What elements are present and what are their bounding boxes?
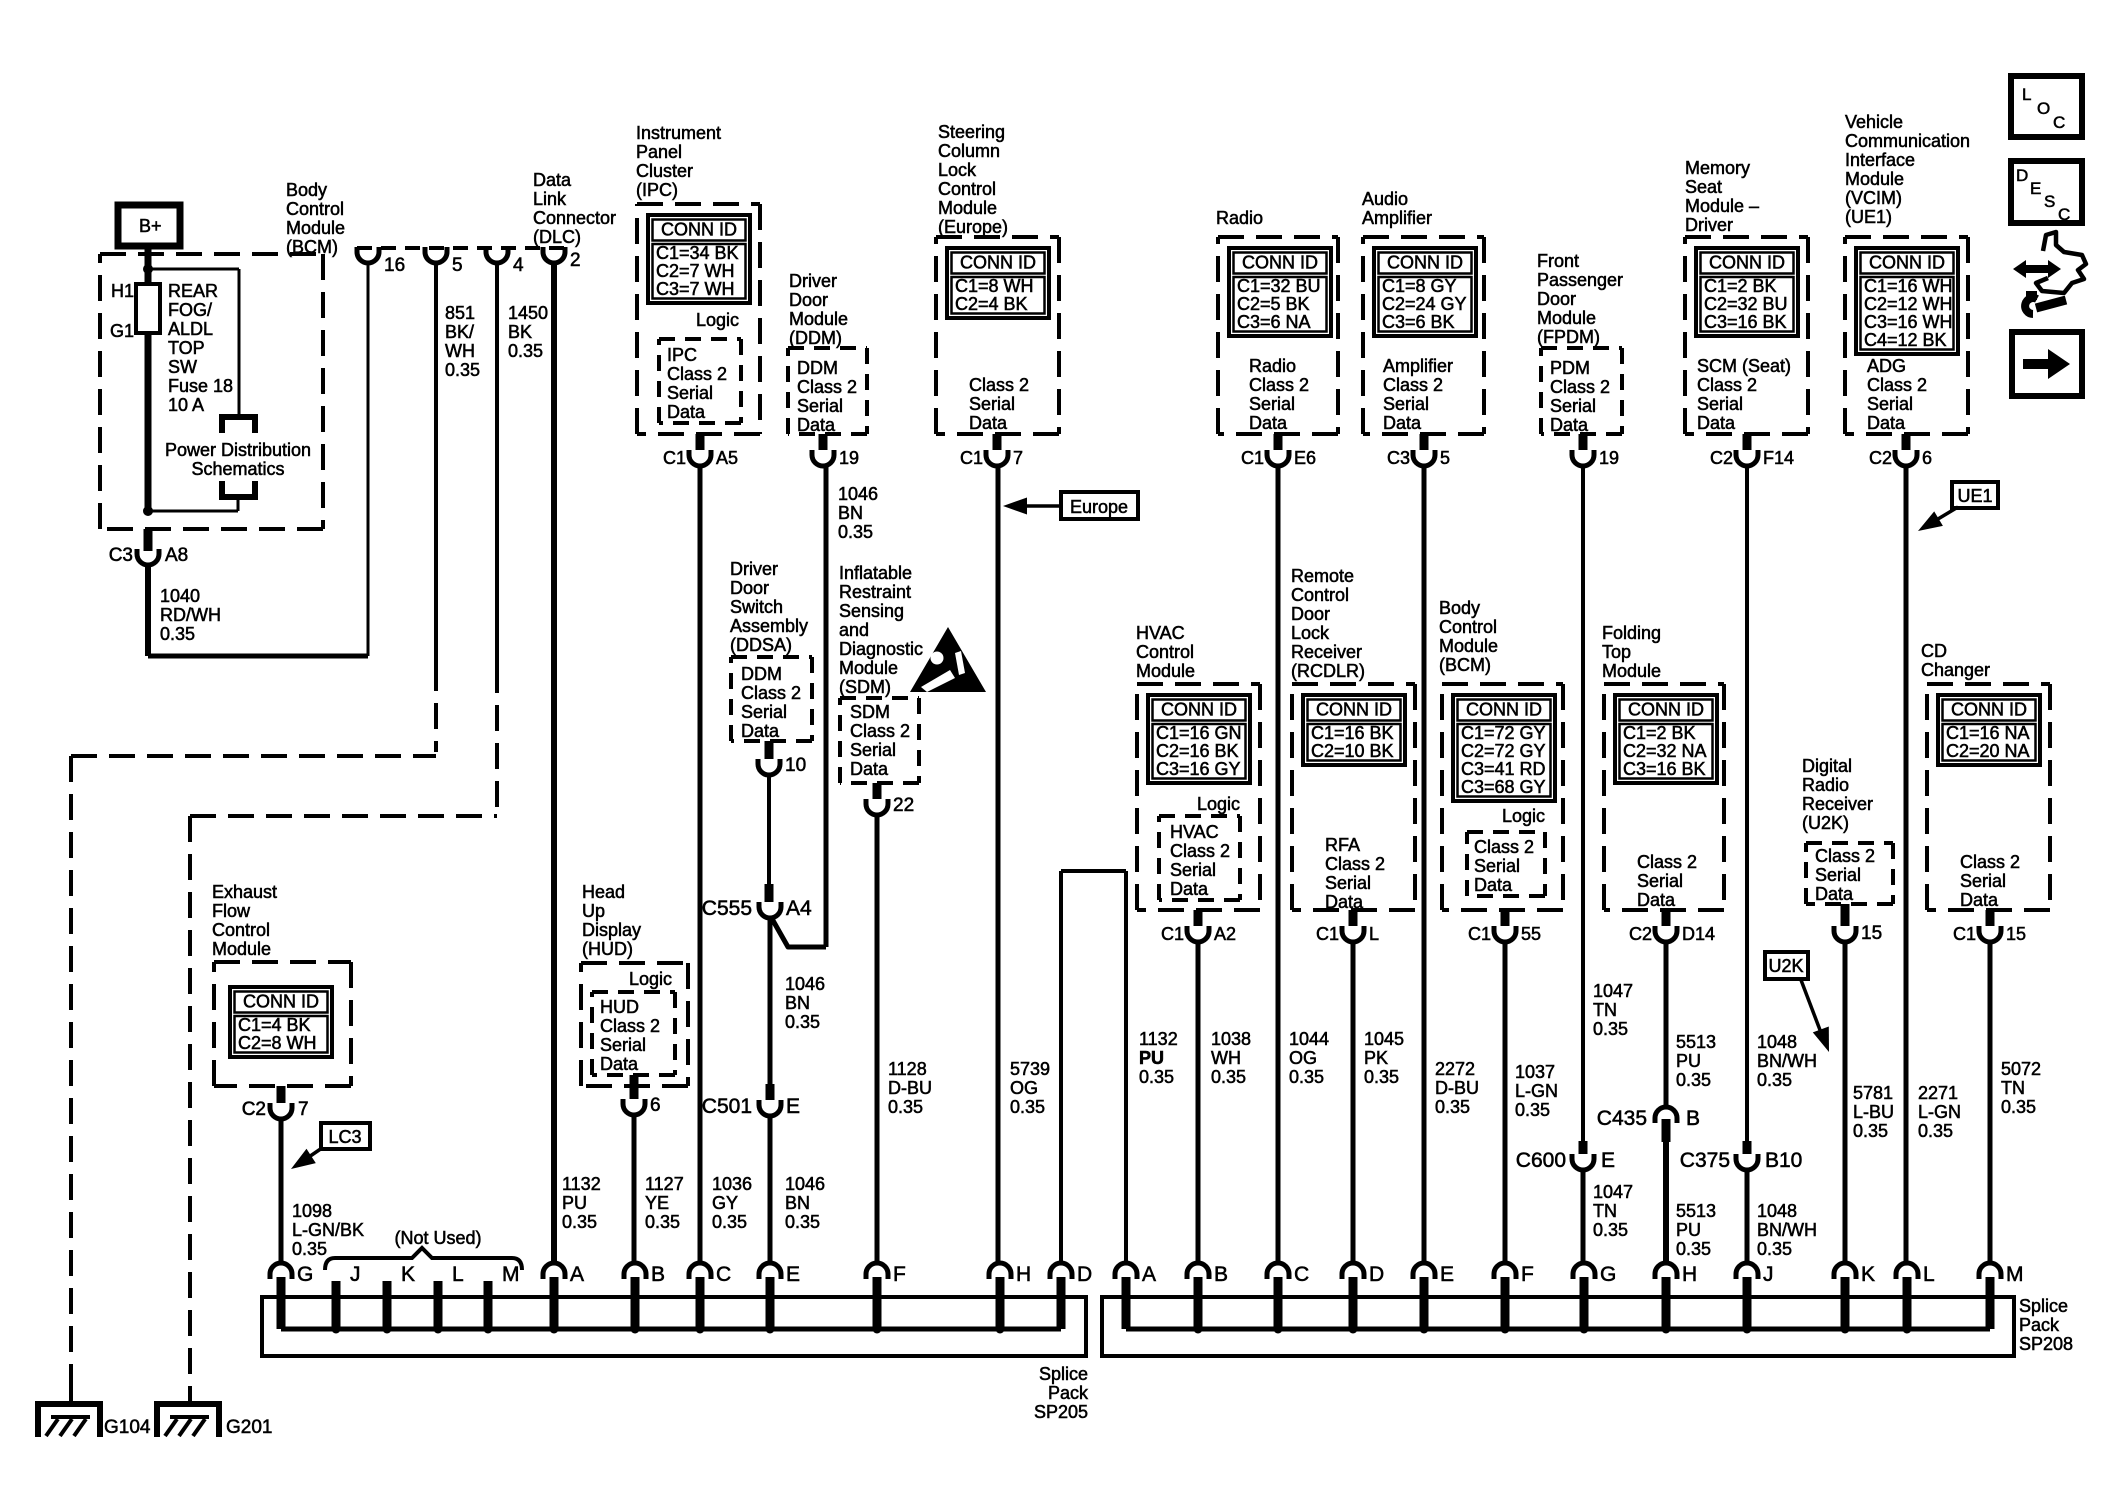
svg-text:C2: C2 [1710,448,1733,468]
svg-text:Europe: Europe [1070,497,1128,517]
svg-text:851: 851 [445,303,475,323]
svg-text:0.35: 0.35 [1593,1019,1628,1039]
svg-text:Serial: Serial [1325,873,1371,893]
svg-text:0.35: 0.35 [785,1212,820,1232]
svg-text:C1: C1 [1316,924,1339,944]
svg-text:CONN ID: CONN ID [1628,700,1704,720]
svg-text:PDM: PDM [1550,358,1590,378]
svg-text:Top: Top [1602,642,1631,662]
svg-text:Communication: Communication [1845,131,1970,151]
svg-text:1045: 1045 [1364,1029,1404,1049]
svg-text:B+: B+ [139,216,162,236]
svg-text:1040: 1040 [160,586,200,606]
svg-text:1047: 1047 [1593,981,1633,1001]
svg-text:OG: OG [1289,1048,1317,1068]
svg-text:L: L [452,1263,464,1286]
svg-text:Class 2: Class 2 [969,375,1029,395]
svg-text:Exhaust: Exhaust [212,882,277,902]
svg-text:C3: C3 [109,545,133,566]
svg-text:19: 19 [839,448,859,468]
svg-text:BN: BN [785,1193,810,1213]
svg-text:Module: Module [1136,661,1195,681]
svg-text:PU: PU [1676,1051,1701,1071]
svg-text:B: B [1214,1263,1228,1286]
svg-text:K: K [401,1263,415,1286]
svg-text:C3=68 GY: C3=68 GY [1461,777,1546,797]
svg-text:Folding: Folding [1602,623,1661,643]
svg-text:HVAC: HVAC [1136,623,1185,643]
svg-text:Logic: Logic [696,310,739,330]
svg-text:Remote: Remote [1291,566,1354,586]
svg-text:L-GN: L-GN [1515,1081,1558,1101]
svg-text:Amplifier: Amplifier [1362,208,1432,228]
svg-text:1128: 1128 [888,1059,927,1079]
svg-text:Amplifier: Amplifier [1383,356,1453,376]
svg-text:Restraint: Restraint [839,582,911,602]
svg-text:CONN ID: CONN ID [1316,700,1392,720]
svg-text:C2: C2 [1869,448,1892,468]
svg-text:F: F [893,1263,906,1286]
svg-text:A: A [570,1263,584,1286]
svg-text:U2K: U2K [1768,956,1803,976]
svg-text:C555: C555 [702,897,752,920]
svg-text:Data: Data [667,402,706,422]
svg-text:0.35: 0.35 [645,1212,680,1232]
svg-text:B: B [651,1263,665,1286]
svg-text:C1: C1 [1161,924,1184,944]
svg-text:0.35: 0.35 [1435,1097,1470,1117]
svg-text:C1: C1 [960,448,983,468]
svg-text:C3: C3 [1387,448,1410,468]
svg-text:CONN ID: CONN ID [1466,700,1542,720]
svg-text:Link: Link [533,189,567,209]
svg-text:D-BU: D-BU [1435,1078,1479,1098]
svg-text:Fuse 18: Fuse 18 [168,376,233,396]
svg-text:Schematics: Schematics [191,459,284,479]
svg-text:Serial: Serial [850,740,896,760]
svg-text:(FPDM): (FPDM) [1537,327,1600,347]
svg-text:Pack: Pack [2019,1315,2060,1335]
svg-text:L-BU: L-BU [1853,1102,1894,1122]
svg-text:Radio: Radio [1249,356,1296,376]
svg-text:Panel: Panel [636,142,682,162]
svg-text:Module: Module [1537,308,1596,328]
svg-text:C2=12 WH: C2=12 WH [1864,294,1953,314]
svg-text:0.35: 0.35 [712,1212,747,1232]
svg-text:Logic: Logic [1197,794,1240,814]
svg-text:0.35: 0.35 [1139,1067,1174,1087]
svg-text:FOG/: FOG/ [168,300,212,320]
svg-text:5739: 5739 [1010,1059,1050,1079]
svg-text:(UE1): (UE1) [1845,207,1892,227]
svg-text:B10: B10 [1765,1149,1802,1172]
svg-text:A5: A5 [716,448,738,468]
svg-text:0.35: 0.35 [1515,1100,1550,1120]
svg-text:Audio: Audio [1362,189,1408,209]
svg-text:Logic: Logic [629,969,672,989]
svg-text:Serial: Serial [741,702,787,722]
svg-text:55: 55 [1521,924,1541,944]
svg-text:CONN ID: CONN ID [243,992,319,1012]
svg-text:1450: 1450 [508,303,548,323]
svg-text:Data: Data [1960,890,1999,910]
svg-text:Data: Data [1815,884,1854,904]
svg-text:RD/WH: RD/WH [160,605,221,625]
svg-text:0.35: 0.35 [1676,1070,1711,1090]
svg-text:Seat: Seat [1685,177,1722,197]
svg-text:Module: Module [1602,661,1661,681]
svg-text:C3=6 NA: C3=6 NA [1237,312,1311,332]
svg-text:BN: BN [838,503,863,523]
svg-text:Serial: Serial [1249,394,1295,414]
svg-text:REAR: REAR [168,281,218,301]
svg-text:1132: 1132 [562,1174,601,1194]
svg-text:C4=12 BK: C4=12 BK [1864,330,1947,350]
svg-text:M: M [2006,1263,2024,1286]
svg-text:C1=16 BK: C1=16 BK [1311,723,1394,743]
svg-text:7: 7 [1013,448,1023,468]
svg-text:C1=2 BK: C1=2 BK [1623,723,1696,743]
svg-text:Instrument: Instrument [636,123,721,143]
svg-text:B: B [1686,1107,1700,1130]
svg-text:Control: Control [938,179,996,199]
svg-text:Data: Data [741,721,780,741]
svg-text:CONN ID: CONN ID [1161,700,1237,720]
svg-text:(BCM): (BCM) [286,237,338,257]
svg-text:M: M [502,1263,520,1286]
svg-text:Steering: Steering [938,122,1005,142]
svg-text:Lock: Lock [938,160,977,180]
svg-text:K: K [1861,1263,1875,1286]
svg-text:Driver: Driver [1685,215,1733,235]
svg-text:Serial: Serial [1697,394,1743,414]
svg-text:0.35: 0.35 [2001,1097,2036,1117]
svg-text:4: 4 [513,255,524,276]
svg-text:C1=16 WH: C1=16 WH [1864,276,1953,296]
svg-text:Data: Data [1383,413,1422,433]
svg-text:Radio: Radio [1802,775,1849,795]
svg-text:C3=16 WH: C3=16 WH [1864,312,1953,332]
svg-text:Class 2: Class 2 [1170,841,1230,861]
svg-text:WH: WH [445,341,475,361]
svg-text:PK: PK [1364,1048,1388,1068]
svg-text:Control: Control [212,920,270,940]
svg-text:C2=32 BU: C2=32 BU [1704,294,1788,314]
svg-text:Control: Control [1291,585,1349,605]
svg-text:A: A [1142,1263,1156,1286]
svg-text:Driver: Driver [789,271,837,291]
svg-text:0.35: 0.35 [1289,1067,1324,1087]
svg-text:Cluster: Cluster [636,161,693,181]
svg-text:10: 10 [785,755,806,776]
svg-text:Data: Data [1550,415,1589,435]
svg-text:1127: 1127 [645,1174,684,1194]
svg-text:HUD: HUD [600,997,639,1017]
svg-text:SP205: SP205 [1034,1402,1088,1422]
svg-text:C1=16 NA: C1=16 NA [1946,723,2030,743]
svg-text:BK: BK [508,322,532,342]
svg-text:Assembly: Assembly [730,616,808,636]
svg-text:C2=72 GY: C2=72 GY [1461,741,1546,761]
svg-text:F: F [1521,1263,1534,1286]
svg-text:Class 2: Class 2 [1815,846,1875,866]
svg-text:Serial: Serial [797,396,843,416]
svg-text:Data: Data [533,170,572,190]
svg-text:C2=5 BK: C2=5 BK [1237,294,1310,314]
svg-text:D: D [1077,1263,1092,1286]
svg-text:C3=16 GY: C3=16 GY [1156,759,1241,779]
svg-text:Serial: Serial [600,1035,646,1055]
svg-text:D-BU: D-BU [888,1078,932,1098]
svg-text:Receiver: Receiver [1291,642,1362,662]
svg-text:E: E [1601,1149,1615,1172]
svg-text:J: J [1763,1263,1774,1286]
svg-text:L: L [1369,924,1379,944]
svg-text:Splice: Splice [2019,1296,2068,1316]
svg-text:Class 2: Class 2 [1637,852,1697,872]
svg-text:0.35: 0.35 [1593,1220,1628,1240]
svg-text:0.35: 0.35 [292,1239,327,1259]
svg-text:Serial: Serial [1383,394,1429,414]
svg-text:SW: SW [168,357,197,377]
svg-text:C2=10 BK: C2=10 BK [1311,741,1394,761]
svg-text:Control: Control [1136,642,1194,662]
svg-text:Serial: Serial [1960,871,2006,891]
svg-text:C2: C2 [1629,924,1652,944]
svg-text:Inflatable: Inflatable [839,563,912,583]
svg-text:5: 5 [1440,448,1450,468]
svg-text:S: S [2044,192,2055,211]
svg-text:0.35: 0.35 [445,360,480,380]
svg-text:Data: Data [1474,875,1513,895]
svg-text:C2=24 GY: C2=24 GY [1382,294,1467,314]
svg-text:C1: C1 [1468,924,1491,944]
svg-text:Pack: Pack [1048,1383,1089,1403]
svg-text:1046: 1046 [785,974,825,994]
svg-text:(DLC): (DLC) [533,227,581,247]
svg-text:CONN ID: CONN ID [1951,700,2027,720]
svg-text:1046: 1046 [785,1174,825,1194]
svg-text:C: C [716,1263,731,1286]
svg-text:BN/WH: BN/WH [1757,1220,1817,1240]
svg-text:2: 2 [570,250,581,271]
svg-text:Data: Data [1867,413,1906,433]
svg-text:Body: Body [286,180,327,200]
svg-text:Door: Door [789,290,828,310]
svg-text:Data: Data [850,759,889,779]
svg-text:C3=16 BK: C3=16 BK [1704,312,1787,332]
svg-text:CONN ID: CONN ID [661,220,737,240]
svg-text:(BCM): (BCM) [1439,655,1491,675]
svg-text:CONN ID: CONN ID [960,253,1036,273]
svg-text:C375: C375 [1680,1149,1730,1172]
svg-text:Control: Control [1439,617,1497,637]
svg-text:Class 2: Class 2 [667,364,727,384]
svg-text:(SDM): (SDM) [839,677,891,697]
svg-text:CONN ID: CONN ID [1387,253,1463,273]
svg-text:Splice: Splice [1039,1364,1088,1384]
svg-text:Up: Up [582,901,605,921]
svg-text:C1=16 GN: C1=16 GN [1156,723,1242,743]
svg-text:1037: 1037 [1515,1062,1555,1082]
svg-text:(U2K): (U2K) [1802,813,1849,833]
svg-text:C: C [2053,113,2065,132]
svg-text:5781: 5781 [1853,1083,1893,1103]
svg-text:ALDL: ALDL [168,319,213,339]
svg-text:C501: C501 [702,1095,752,1118]
svg-text:2272: 2272 [1435,1059,1475,1079]
svg-text:Power Distribution: Power Distribution [165,440,311,460]
svg-text:WH: WH [1211,1048,1241,1068]
svg-text:PU: PU [562,1193,587,1213]
svg-text:Module: Module [1439,636,1498,656]
svg-text:Class 2: Class 2 [1697,375,1757,395]
svg-text:CONN ID: CONN ID [1242,253,1318,273]
svg-text:0.35: 0.35 [785,1012,820,1032]
svg-text:0.35: 0.35 [888,1097,923,1117]
svg-text:C1=72 GY: C1=72 GY [1461,723,1546,743]
svg-text:1047: 1047 [1593,1182,1633,1202]
svg-text:1048: 1048 [1757,1032,1797,1052]
svg-text:Class 2: Class 2 [1867,375,1927,395]
svg-text:F14: F14 [1763,448,1794,468]
svg-text:D: D [1369,1263,1384,1286]
svg-text:C2: C2 [242,1099,266,1120]
svg-text:O: O [2037,99,2050,118]
svg-text:Module: Module [1845,169,1904,189]
svg-text:0.35: 0.35 [562,1212,597,1232]
svg-text:TOP: TOP [168,338,205,358]
svg-text:G: G [1600,1263,1616,1286]
svg-text:Door: Door [730,578,769,598]
svg-text:HVAC: HVAC [1170,822,1219,842]
svg-text:1038: 1038 [1211,1029,1251,1049]
svg-text:5513: 5513 [1676,1201,1716,1221]
svg-text:J: J [350,1263,361,1286]
svg-text:Class 2: Class 2 [797,377,857,397]
svg-text:LC3: LC3 [328,1127,361,1147]
svg-text:Class 2: Class 2 [1249,375,1309,395]
svg-text:Display: Display [582,920,641,940]
svg-text:Head: Head [582,882,625,902]
svg-text:Connector: Connector [533,208,616,228]
svg-text:L-GN: L-GN [1918,1102,1961,1122]
svg-text:C1=34 BK: C1=34 BK [656,243,739,263]
svg-text:Module: Module [839,658,898,678]
svg-text:6: 6 [650,1095,661,1116]
svg-text:C435: C435 [1597,1107,1647,1130]
svg-text:Class 2: Class 2 [1474,837,1534,857]
svg-text:(IPC): (IPC) [636,180,678,200]
svg-text:Class 2: Class 2 [850,721,910,741]
svg-text:Flow: Flow [212,901,251,921]
svg-text:Lock: Lock [1291,623,1330,643]
svg-text:Interface: Interface [1845,150,1915,170]
svg-text:7: 7 [298,1099,309,1120]
svg-text:E6: E6 [1294,448,1316,468]
svg-text:Digital: Digital [1802,756,1852,776]
svg-text:Class 2: Class 2 [1550,377,1610,397]
svg-text:E: E [2030,179,2041,198]
svg-text:0.35: 0.35 [508,341,543,361]
svg-text:OG: OG [1010,1078,1038,1098]
svg-text:CONN ID: CONN ID [1709,253,1785,273]
svg-text:Driver: Driver [730,559,778,579]
svg-text:G1: G1 [110,321,134,341]
svg-text:RFA: RFA [1325,835,1360,855]
svg-text:5072: 5072 [2001,1059,2041,1079]
svg-text:(Europe): (Europe) [938,217,1008,237]
svg-text:Passenger: Passenger [1537,270,1623,290]
svg-text:CD: CD [1921,641,1947,661]
svg-text:G: G [297,1263,313,1286]
svg-text:SDM: SDM [850,702,890,722]
svg-text:Logic: Logic [1502,806,1545,826]
svg-text:L: L [1923,1263,1935,1286]
svg-text:C600: C600 [1516,1149,1566,1172]
svg-text:Serial: Serial [1170,860,1216,880]
svg-text:10 A: 10 A [168,395,204,415]
svg-text:TN: TN [2001,1078,2025,1098]
svg-text:Class 2: Class 2 [1383,375,1443,395]
svg-text:Data: Data [1170,879,1209,899]
svg-text:C1=2 BK: C1=2 BK [1704,276,1777,296]
svg-text:SCM (Seat): SCM (Seat) [1697,356,1791,376]
svg-text:C: C [2058,205,2070,224]
svg-text:C3=41 RD: C3=41 RD [1461,759,1546,779]
svg-text:1132: 1132 [1139,1029,1178,1049]
svg-text:Column: Column [938,141,1000,161]
svg-text:L: L [2022,85,2031,104]
svg-text:Serial: Serial [969,394,1015,414]
svg-text:TN: TN [1593,1000,1617,1020]
svg-text:Serial: Serial [667,383,713,403]
svg-text:Sensing: Sensing [839,601,904,621]
svg-text:C2=4 BK: C2=4 BK [955,294,1028,314]
svg-text:(DDM): (DDM) [789,328,842,348]
svg-text:0.35: 0.35 [1853,1121,1888,1141]
svg-text:YE: YE [645,1193,669,1213]
svg-text:0.35: 0.35 [1918,1121,1953,1141]
svg-text:1046: 1046 [838,484,878,504]
svg-text:SP208: SP208 [2019,1334,2073,1354]
svg-text:0.35: 0.35 [1757,1070,1792,1090]
svg-text:C1: C1 [1241,448,1264,468]
svg-text:A2: A2 [1214,924,1236,944]
svg-text:(DDSA): (DDSA) [730,635,792,655]
svg-text:CONN ID: CONN ID [1869,253,1945,273]
svg-text:BN/WH: BN/WH [1757,1051,1817,1071]
svg-text:Serial: Serial [1637,871,1683,891]
svg-text:0.35: 0.35 [1010,1097,1045,1117]
svg-text:Switch: Switch [730,597,783,617]
svg-text:C2=7 WH: C2=7 WH [656,261,735,281]
svg-text:5: 5 [452,255,463,276]
svg-text:(HUD): (HUD) [582,939,633,959]
svg-text:Data: Data [600,1054,639,1074]
svg-text:6: 6 [1922,448,1932,468]
svg-text:Serial: Serial [1550,396,1596,416]
svg-text:1098: 1098 [292,1201,332,1221]
svg-text:C3=16 BK: C3=16 BK [1623,759,1706,779]
svg-text:E: E [786,1263,800,1286]
svg-text:H1: H1 [111,281,134,301]
svg-text:Memory: Memory [1685,158,1750,178]
svg-text:Module: Module [286,218,345,238]
svg-text:DDM: DDM [741,664,782,684]
svg-text:Door: Door [1291,604,1330,624]
svg-text:L-GN/BK: L-GN/BK [292,1220,364,1240]
